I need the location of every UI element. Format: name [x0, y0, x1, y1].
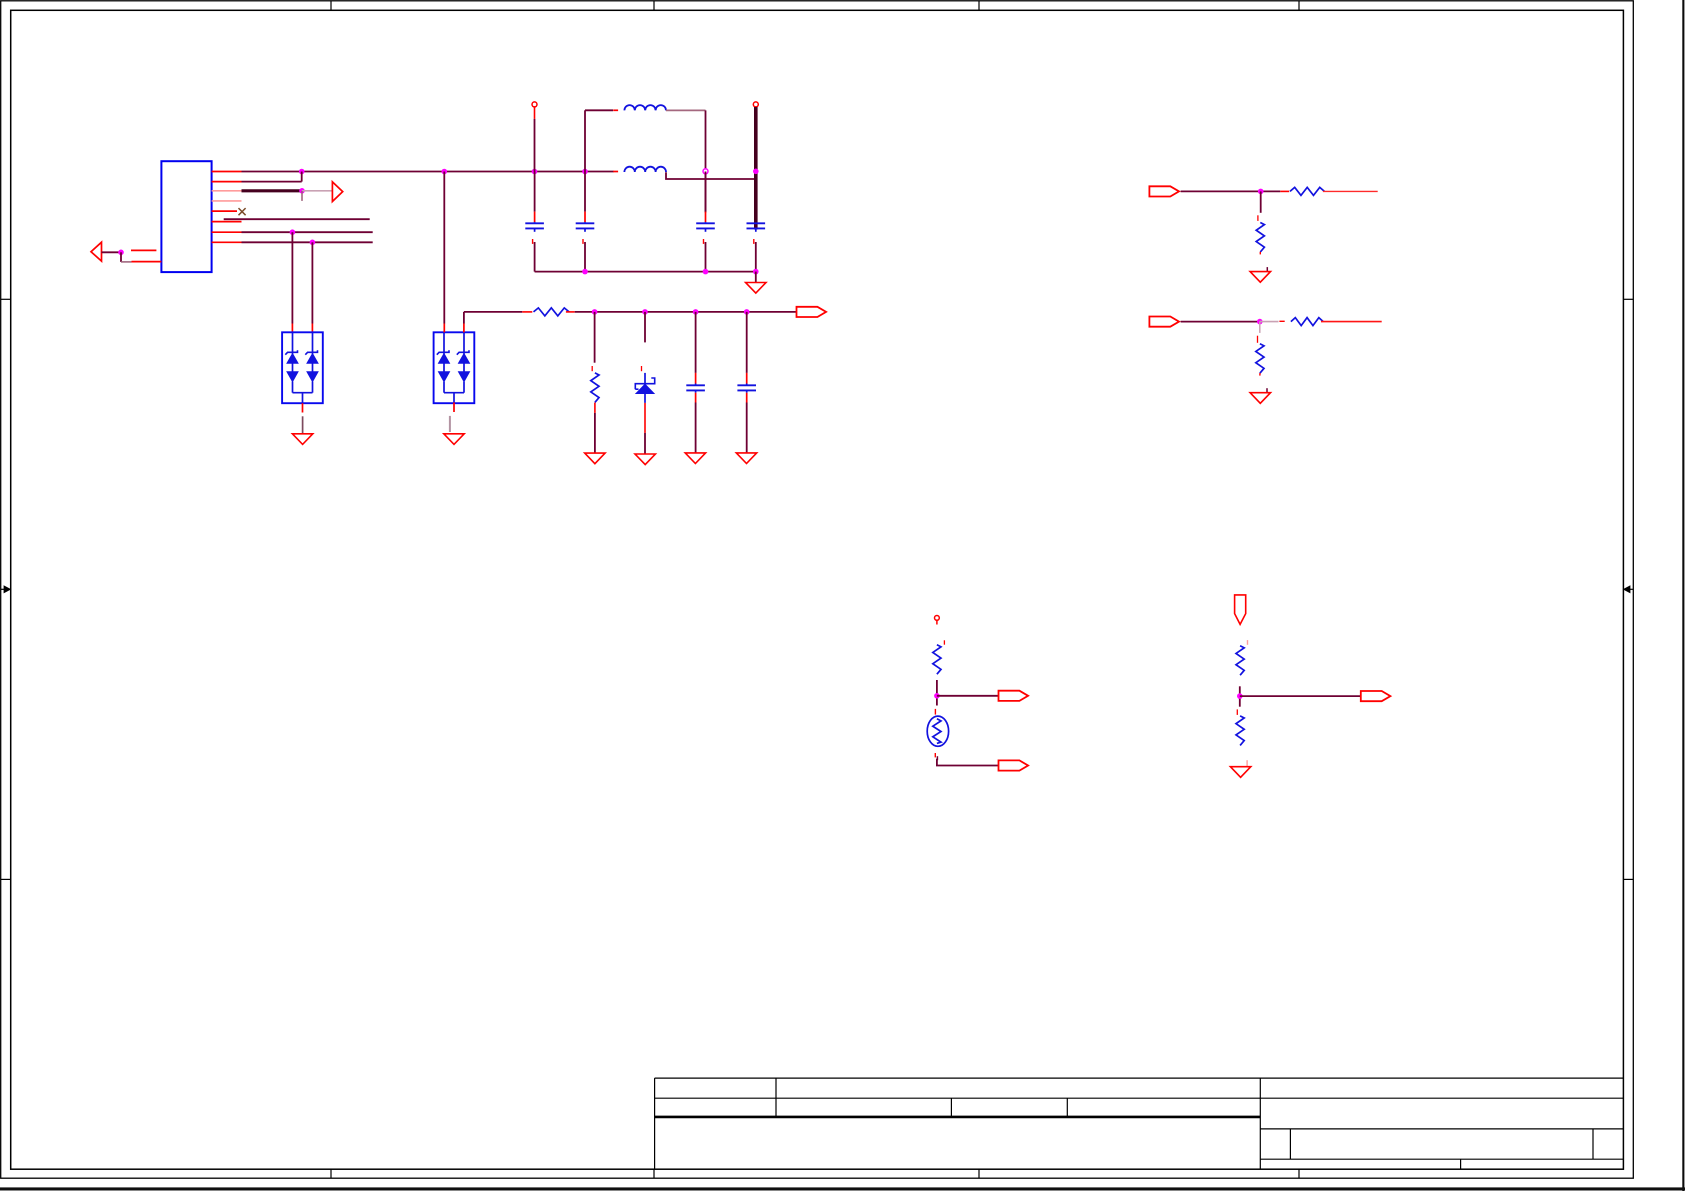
resistor R2 lead — [594, 403, 596, 453]
ground symbol R4 — [1250, 272, 1270, 283]
open node marker on L1 branch — [703, 169, 708, 174]
capacitor C5 lead top — [695, 373, 697, 385]
ground symbol D1 — [635, 454, 655, 465]
thermistor RT1 pin1 label — [934, 709, 936, 715]
node junction D+ c1 — [532, 169, 538, 175]
capacitor C5 — [686, 385, 705, 390]
ground symbol under U3 — [444, 434, 464, 445]
connector J1 pin 6 stub — [212, 221, 242, 223]
right zone ticks — [1623, 299, 1633, 879]
page bottom clipped text strip — [0, 1187, 1685, 1190]
resistor R2 pin1 label — [591, 366, 593, 371]
wire pin3 thick segment — [242, 189, 303, 192]
wire ctl2 — [1181, 321, 1260, 323]
connector J1 pin 5 stub — [212, 210, 237, 212]
bottom zone ticks — [331, 1169, 1299, 1178]
node therm — [934, 693, 940, 699]
port VBUS flag — [797, 307, 827, 317]
title block — [655, 1078, 1624, 1169]
node dot on TP2 bus — [753, 169, 759, 175]
inductor L1 right lead — [666, 109, 706, 111]
gnd lead filter — [755, 272, 757, 282]
node divider — [1237, 693, 1243, 699]
top zone ticks — [331, 1, 1299, 11]
wire pin8 to esd1 — [311, 242, 313, 332]
esd array U2 (4x TVS diodes) — [282, 332, 323, 403]
wire r6 down pale — [1259, 322, 1261, 333]
wire pin3 to port — [302, 191, 332, 201]
wire c6 down — [746, 312, 748, 373]
wire L1 up from node — [584, 110, 586, 171]
node junction D+ pin2 — [299, 169, 305, 175]
capacitor C3 — [696, 172, 715, 272]
right center arrow — [1624, 586, 1634, 593]
gnd lead R4 — [1266, 267, 1268, 271]
port VIN flag down — [1235, 595, 1246, 625]
inductor L2 lead stub — [613, 171, 618, 173]
ground symbol R6 — [1250, 393, 1270, 404]
connector J1 shield pin stub lower — [132, 261, 162, 263]
resistor R4 pin1 label — [1257, 215, 1259, 221]
resistor R1 lead left — [522, 311, 532, 313]
port CTL2 flag — [1149, 317, 1179, 327]
wire r7 down — [936, 680, 938, 706]
filter ground bus — [535, 271, 756, 273]
node junction pin8 — [310, 240, 316, 246]
port TH1 flag — [998, 691, 1028, 701]
capacitor C1 — [525, 172, 544, 272]
connector J1 pin 7 stub — [212, 231, 242, 233]
wire pin6 net — [224, 218, 370, 220]
left center arrow — [1, 586, 11, 593]
inductor L2 — [624, 167, 666, 172]
resistor R8 pin1 label — [1247, 640, 1249, 645]
connector J1 pin 8 stub — [212, 241, 242, 243]
node junction D+ l1 — [582, 169, 588, 175]
wire TP1 down — [534, 107, 536, 172]
connector J1 shield pin stub upper — [131, 249, 156, 251]
esd array U3 (4x TVS diodes) — [434, 332, 475, 403]
resistor R3 — [1290, 187, 1324, 195]
testpoint TP1 circle — [532, 102, 537, 107]
wire R3 right red — [1323, 190, 1378, 192]
esd U3 ground lead — [450, 402, 454, 432]
wire pin2 to pin1 net — [242, 172, 302, 182]
wire d1 down — [644, 312, 646, 343]
resistor R8 — [1236, 646, 1244, 676]
node junction D+ esd — [442, 169, 448, 175]
connector J1 pin 2 stub — [212, 181, 242, 183]
TP3 lead — [936, 620, 938, 624]
port CC1 triangle — [332, 182, 342, 202]
resistor R9 pin1 label — [1236, 709, 1238, 715]
gnd lead R6 — [1266, 388, 1268, 392]
connector J1 pin 1 stub — [212, 171, 242, 173]
node gndbus c4 — [753, 269, 759, 275]
port VOUT flag — [1361, 691, 1391, 701]
zener D1 bottom lead — [644, 394, 646, 454]
resistor R7 — [933, 645, 941, 675]
thermistor RT1 — [927, 716, 948, 746]
wire L1 out down — [705, 110, 707, 212]
resistor R3 lead left — [1280, 190, 1289, 192]
page right edge line — [1682, 0, 1684, 1191]
capacitor C4 — [747, 223, 766, 271]
thermistor RT1 pin2 label — [935, 753, 937, 760]
node gndbus c3 — [703, 269, 709, 275]
resistor R1 — [534, 308, 570, 316]
wire therm bottom — [937, 759, 998, 766]
zener D1 body — [636, 384, 654, 393]
node vbus r2 — [592, 309, 598, 315]
wire C3 top — [0, 0, 1, 1]
resistor R6 pin1 label — [1257, 336, 1259, 343]
wire r2 down — [594, 312, 596, 363]
zener D1 pin1 label — [641, 366, 643, 371]
testpoint TP2 circle — [753, 102, 758, 107]
capacitor C6 lead top — [746, 373, 748, 385]
resistor R5 pin label — [1279, 320, 1284, 322]
node junction pin3 — [299, 188, 305, 194]
connector J1 pin 3 stub — [212, 190, 242, 192]
resistor R9 — [1236, 716, 1244, 746]
capacitor C5 lead bot — [695, 391, 697, 453]
capacitor C6 — [737, 385, 756, 390]
ground symbol under U2 — [292, 434, 312, 445]
ground symbol R2 — [585, 453, 605, 464]
wire vbus down to esd U3 — [463, 312, 465, 332]
node vbus d1 — [642, 309, 648, 315]
wire pin7 to esd1 — [291, 232, 293, 332]
resistor R7 pin1 label — [943, 640, 945, 644]
wire net USB_D+ main — [242, 171, 614, 173]
wire therm out — [937, 695, 998, 697]
zener D1 top lead — [644, 373, 646, 384]
wire shield down — [121, 252, 132, 262]
node junction pin7 — [290, 229, 296, 235]
ground symbol R9 — [1230, 767, 1250, 778]
node junction shield — [118, 250, 124, 256]
node ctl2 — [1257, 319, 1263, 325]
wire vbus rail — [575, 311, 797, 313]
inductor L1 — [624, 105, 666, 110]
wire L2 out — [666, 172, 756, 179]
wire pin8 net — [242, 241, 373, 243]
inductor L1 left lead — [585, 109, 618, 111]
zener D1 cathode bar — [635, 378, 654, 389]
connector J1 body — [161, 161, 211, 272]
wire R5 right red — [1321, 321, 1382, 323]
wire c5 down — [695, 312, 697, 373]
wire D+ down to esd U3 — [443, 172, 445, 333]
wire ctl1 — [1181, 190, 1281, 192]
ground symbol filter — [746, 283, 766, 294]
node ctl1 — [1258, 189, 1264, 195]
wire r4 down — [1260, 191, 1262, 212]
wire divider out — [1240, 695, 1361, 697]
resistor R9 pin2 label — [1246, 760, 1248, 766]
resistor R5 — [1291, 318, 1323, 326]
no-connect X pin5 — [239, 208, 246, 215]
left zone ticks — [1, 299, 11, 879]
port CTL1 flag — [1149, 186, 1179, 196]
node vbus c5 — [693, 309, 699, 315]
thick bus from TP2 — [754, 107, 758, 230]
resistor R4 stub — [1259, 252, 1261, 255]
wire pin7 net — [242, 231, 373, 233]
node gndbus c2 — [582, 269, 588, 275]
resistor R2 — [591, 373, 599, 403]
capacitor C6 lead bot — [746, 391, 748, 453]
resistor R6 stub — [1259, 373, 1261, 376]
wire shield port — [102, 251, 122, 253]
connector J1 pin 4 stub — [212, 200, 242, 202]
resistor R4 — [1256, 223, 1264, 253]
resistor R6 — [1256, 344, 1264, 374]
port TH2 flag — [998, 760, 1028, 770]
wire vbus corner — [464, 311, 522, 313]
wire ctl2 pale — [1260, 321, 1279, 323]
resistor R1 lead right — [566, 311, 575, 313]
capacitor C2 — [576, 172, 595, 272]
port SHIELD triangle left — [91, 242, 102, 261]
wire r8 down — [1239, 686, 1241, 706]
esd U2 ground lead — [302, 403, 304, 433]
testpoint TP3 circle — [935, 616, 940, 621]
ground symbol C5 — [685, 453, 705, 464]
ground symbol C6 — [736, 453, 756, 464]
node vbus c6 — [744, 309, 750, 315]
